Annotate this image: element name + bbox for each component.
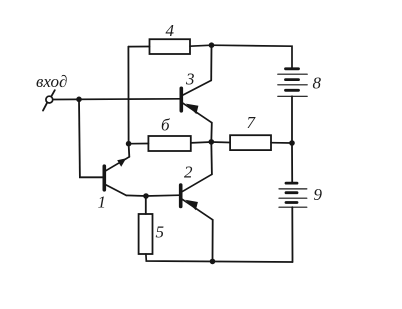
transistor Q1	[104, 144, 129, 196]
svg-text:7: 7	[247, 113, 257, 132]
svg-text:4: 4	[166, 21, 175, 40]
resistor R7	[211, 135, 292, 150]
node input junction	[76, 97, 82, 103]
svg-text:5: 5	[156, 223, 165, 242]
svg-text:8: 8	[313, 73, 322, 92]
svg-text:б: б	[161, 116, 170, 135]
wire battery8 to J4	[291, 96, 293, 143]
resistor R6	[129, 136, 212, 151]
wire input horizontal	[53, 98, 181, 101]
node J3 top	[209, 42, 215, 48]
battery B8	[278, 69, 307, 97]
resistor R5	[139, 214, 153, 254]
node J5 bottom	[210, 259, 216, 265]
battery B9	[279, 183, 307, 207]
wire battery9 to bottom rail	[291, 207, 293, 262]
svg-text:9: 9	[314, 185, 323, 204]
wire Q1 lower lead to node	[126, 194, 146, 197]
node J6	[143, 193, 149, 199]
node J7 mid	[209, 139, 215, 145]
svg-text:2: 2	[184, 163, 193, 182]
wire R5 to bottom rail	[146, 254, 293, 262]
node J4 right	[289, 140, 295, 146]
svg-text:вхо∂: вхо∂	[36, 72, 67, 91]
wire input down to Q1 base	[79, 99, 104, 177]
wire node to R5	[145, 196, 147, 214]
svg-text:1: 1	[98, 193, 107, 212]
left rail	[127, 47, 129, 144]
transistor Q3	[181, 45, 212, 142]
wire J4 to battery9	[291, 143, 293, 182]
svg-text:3: 3	[185, 70, 195, 89]
node J2	[126, 141, 132, 147]
top rail	[212, 45, 293, 68]
input terminal	[43, 90, 55, 110]
resistor R4	[128, 39, 211, 54]
transistor Q2	[146, 142, 213, 262]
